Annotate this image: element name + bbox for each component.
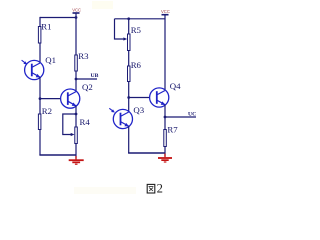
resistor R6 [128, 60, 142, 82]
faint yellow smudge top [92, 1, 113, 9]
wire R4 top [75, 114, 77, 127]
wire R1 bottom to Q1 collector [39, 43, 41, 63]
wire Q3 emitter down [128, 126, 130, 153]
resistor R1 [38, 22, 51, 43]
transistor Q4 [150, 81, 182, 107]
svg-text:Q2: Q2 [82, 82, 93, 92]
transistor Q1 [25, 55, 56, 79]
svg-text:2: 2 [157, 182, 163, 196]
svg-text:R2: R2 [42, 106, 52, 116]
svg-text:R4: R4 [80, 117, 91, 127]
wire UB stub [76, 73, 99, 79]
ground symbol right [158, 154, 172, 163]
wire Q4 emitter down [164, 105, 166, 117]
svg-text:R7: R7 [167, 125, 178, 135]
faint cream smudge bottom [74, 187, 136, 194]
wire R5 top [128, 19, 130, 34]
wire Q4 base [129, 97, 157, 99]
wire R5 bottom to R6 top [128, 51, 130, 67]
node junction Q1 emitter / R2 / Q2 base [39, 97, 42, 100]
svg-text:R1: R1 [41, 22, 51, 32]
input signal arrow at Q3 base [109, 108, 115, 112]
wire R2 top [39, 99, 41, 114]
node junction Q2 emitter / R4 [75, 113, 78, 116]
wire R3 bottom to UB node [75, 71, 77, 93]
svg-text:R3: R3 [78, 51, 89, 61]
wire R7 bottom to ground [164, 147, 166, 157]
svg-text:Q4: Q4 [170, 81, 181, 91]
resistor R3 [75, 51, 89, 71]
wire bottom rail right circuit [128, 152, 165, 154]
svg-text:R5: R5 [131, 25, 142, 35]
wire Q3 collector [128, 98, 130, 113]
VCC symbol right [161, 9, 170, 19]
wire R7 top [164, 117, 166, 130]
VCC symbol left (bar, stem, text) [72, 8, 81, 18]
resistor R7 [164, 125, 178, 147]
svg-text:Q1: Q1 [45, 55, 56, 65]
wire R4 wiper loop [63, 114, 76, 136]
wire bottom rail left circuit [39, 154, 76, 156]
wire R1 top [39, 17, 41, 27]
wire R2 bottom [39, 130, 41, 156]
transistor Q2 [61, 82, 93, 108]
node junction R6 / Q3 collector / Q4 base [127, 96, 130, 99]
wire UC stub [165, 112, 196, 118]
svg-text:UC: UC [188, 112, 196, 118]
wire R3 top from VCC [75, 18, 77, 56]
resistor R5 [128, 25, 142, 51]
resistor R4 [75, 117, 91, 144]
svg-text:R6: R6 [131, 60, 142, 70]
wire R6 bottom to node [128, 82, 130, 98]
node UC junction [164, 116, 167, 119]
wire top rail left circuit [40, 17, 76, 19]
caption figure 2 (drawn CJK glyph + digit) [147, 182, 163, 196]
transistor Q3 [113, 105, 144, 128]
node junction at VCC/R1/R3 [75, 16, 78, 19]
svg-text:VCC: VCC [161, 9, 170, 14]
wire Q2 emitter down [75, 106, 77, 114]
wire Q2 base [40, 98, 68, 100]
wire Q1 emitter down [39, 77, 41, 98]
wire Q4 collector from VCC [164, 19, 166, 91]
input signal arrow at Q1 base [22, 60, 28, 64]
node junction R5 top [127, 17, 130, 20]
svg-text:Q3: Q3 [133, 105, 144, 115]
ground symbol left [69, 156, 84, 165]
svg-text:UB: UB [91, 73, 99, 79]
node UB junction [75, 78, 78, 81]
wire top rail right circuit [115, 18, 166, 20]
wire R4 bottom to ground [75, 144, 77, 159]
svg-text:VCC: VCC [72, 8, 81, 13]
resistor R2 [38, 106, 52, 129]
wire R5 wiper loop [115, 19, 128, 41]
